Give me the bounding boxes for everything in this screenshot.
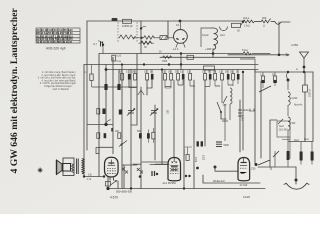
junction dot oscillator <box>140 37 142 39</box>
svg-text:4 650: 4 650 <box>291 43 298 47</box>
capacitor C21 beside V2 <box>152 171 155 176</box>
wire vertical x106 <box>105 65 107 125</box>
wire component bus y69.5 <box>106 69 258 71</box>
svg-text:+180 V: +180 V <box>205 47 214 51</box>
svg-text:2M: 2M <box>132 72 135 74</box>
svg-text:10 20 30 40 50 60 250V 80 4n 9: 10 20 30 40 50 60 250V 80 4n 95 <box>36 41 72 44</box>
wire vertical x162 <box>161 70 163 165</box>
fuse on top bus <box>112 18 118 21</box>
notes text block <box>38 71 77 91</box>
svg-text:1 kΩ: 1 kΩ <box>244 24 249 28</box>
netz box <box>277 121 290 137</box>
junction dots near V1 <box>103 175 105 177</box>
long resistor box x204-214 <box>204 66 215 70</box>
tube V3 rectifier envelope <box>238 158 250 181</box>
wire vertical x141 oscillator <box>140 21 142 54</box>
coil former marks x240 <box>238 110 242 116</box>
resistor R24 right of V2 <box>186 155 189 161</box>
power section corner <box>240 59 255 70</box>
wire vertical x137 <box>131 54 137 126</box>
svg-text:7000: 7000 <box>162 61 168 63</box>
capacitor C22 <box>147 133 150 138</box>
switch S4 diagonal <box>223 96 227 104</box>
capacitor C13 <box>209 74 212 80</box>
capacitor C10 <box>128 74 131 80</box>
star mark <box>38 168 43 173</box>
wire joints under resistors <box>129 79 152 88</box>
svg-text:a 4 b: a 4 b <box>173 48 179 51</box>
coil L3 bumps <box>210 28 218 54</box>
svg-text:4,7k: 4,7k <box>87 178 92 181</box>
wire left inner vertical <box>86 65 88 151</box>
junction dot speaker lead <box>83 175 85 177</box>
resistor R25 vertical right <box>303 85 308 92</box>
wire speaker bottom <box>84 158 105 177</box>
mains junction dot <box>255 163 258 166</box>
antenna symbol <box>300 52 309 58</box>
svg-text:Netz: Netz <box>294 139 300 142</box>
resistor R16 <box>189 74 192 81</box>
coil loops x230 <box>230 88 232 104</box>
variable capacitor C19 <box>127 109 135 116</box>
tuning indicator triangle <box>138 90 144 95</box>
choke core marks <box>216 142 222 146</box>
capacitor pair C27 <box>197 141 199 146</box>
output transformer core <box>77 159 79 175</box>
junction dot x213 y53.5 <box>212 52 215 55</box>
svg-text:110-240: 110-240 <box>279 128 288 131</box>
svg-text:230 V: 230 V <box>242 114 245 121</box>
resistor R18 <box>214 74 217 81</box>
resistor R10 <box>121 74 124 81</box>
capacitor C14 <box>227 74 230 80</box>
wire switch line y183 <box>203 175 260 183</box>
arrowhead <box>286 54 289 56</box>
trimmer arrow on x141 <box>140 27 142 29</box>
wire arrow line to antenna <box>228 54 289 56</box>
wire top bus <box>87 20 243 22</box>
capacitor C18 dark x120 y111 <box>119 110 122 115</box>
tube V1 envelope <box>105 157 119 177</box>
screen resistor R7 zigzag <box>243 52 251 55</box>
wire vertical x113 <box>112 57 114 154</box>
box on bus x190 <box>187 55 194 59</box>
tube V2 electrodes <box>170 158 178 174</box>
capacitor C26 <box>139 133 142 138</box>
wire vertical x181 <box>180 54 182 70</box>
grid cap marks <box>122 168 128 174</box>
trimmer capacitor on y124 <box>104 123 107 126</box>
wire vertical x205 <box>204 80 206 146</box>
wire vertical x296 ground lead <box>295 167 297 184</box>
connector bracket <box>249 109 255 112</box>
svg-text:150: 150 <box>167 109 170 114</box>
resistor R17 <box>204 74 207 81</box>
junction dot x215 <box>214 166 217 169</box>
loudspeaker cone <box>57 160 63 175</box>
wire grid line V1 <box>122 164 137 166</box>
svg-text:300: 300 <box>262 16 267 20</box>
resistor R6 zigzag on top bus <box>261 19 271 23</box>
main wire grid <box>84 21 313 189</box>
pilot lamp <box>174 30 188 44</box>
mains switch diagonals <box>258 160 270 165</box>
resistor R22 <box>274 76 277 83</box>
wire main bus y64.5 <box>84 64 258 66</box>
wire y124 tuning line <box>87 124 113 126</box>
junction dots bus y69.5 <box>287 71 289 73</box>
component row y133: resistor R27 <box>97 133 100 139</box>
u-joins under component row <box>165 85 233 87</box>
capacitor C16 dark on y87 <box>104 84 107 90</box>
svg-text:1M: 1M <box>230 72 233 74</box>
resistor R12 <box>146 74 149 81</box>
resistor R9 zigzag on y57 bus <box>163 56 172 59</box>
switch curve x288 <box>287 72 289 79</box>
tube V3 electrodes <box>240 158 247 173</box>
svg-text:500+500+300: 500+500+300 <box>116 190 133 194</box>
svg-text:Welle: Welle <box>243 109 250 112</box>
svg-text:0,003: 0,003 <box>292 98 298 100</box>
resistor R8 on left <box>90 74 93 81</box>
ground symbol anchor <box>286 183 307 189</box>
component row stubs <box>122 70 275 89</box>
capacitor C25 <box>104 133 107 138</box>
junction dots misc <box>105 68 108 71</box>
coil loops chain upper <box>288 92 290 105</box>
wire mains line y167 <box>258 166 296 168</box>
svg-text:0,1: 0,1 <box>176 23 180 27</box>
wire vertical x221 <box>221 112 226 119</box>
resistor R26 <box>152 132 155 139</box>
svg-text:Netz-An: Netz-An <box>294 104 303 107</box>
svg-text:4 GW 646 mit elektrodyn. Lauts: 4 GW 646 mit elektrodyn. Lautsprecher <box>9 8 20 174</box>
speaker voice coil zigzag <box>72 164 74 173</box>
svg-text:2300 Ω: 2300 Ω <box>309 89 312 97</box>
resistor box components x98-106 y109 <box>97 109 100 115</box>
wire vertical x300 <box>304 72 306 142</box>
switch S3 diagonal <box>119 141 127 147</box>
wire bottom bus left drop <box>107 177 109 189</box>
svg-text:1M: 1M <box>168 72 171 74</box>
wire vertical x305 antenna lead <box>303 58 305 72</box>
wire vertical x270 <box>270 120 277 167</box>
resistor R21 <box>262 76 265 83</box>
svg-text:5 kΩ: 5 kΩ <box>242 48 247 52</box>
wire vertical x194 <box>193 80 195 189</box>
antenna junction dot <box>303 66 306 69</box>
resistor R11 <box>134 74 137 81</box>
resistor R15 <box>177 74 180 81</box>
wire vertical x279 top <box>278 22 280 55</box>
svg-text:A: A <box>296 67 298 71</box>
wire bus y57 <box>160 56 255 58</box>
svg-text:Wellensch.: Wellensch. <box>213 179 226 183</box>
wire vertical x261 <box>260 81 262 158</box>
switch S1 feed wire <box>222 85 228 141</box>
parts table <box>36 28 80 43</box>
speaker field coil box <box>63 164 71 172</box>
svg-text:5000: 5000 <box>224 144 230 147</box>
resistor R19 <box>221 74 224 81</box>
tube V2 envelope <box>168 158 181 181</box>
wire vertical x141 lower <box>140 87 142 95</box>
variable capacitor C20 <box>150 109 158 116</box>
svg-text:0,1µ: 0,1µ <box>117 61 122 63</box>
svg-text:0,1µF: 0,1µF <box>202 33 209 37</box>
junction dot x279 on arrow line <box>278 54 281 57</box>
junction dot top bus x180 <box>179 20 182 23</box>
small tick x113 y129 <box>111 128 113 132</box>
wire heater lines <box>133 162 168 164</box>
wire vertical x168 top <box>167 21 169 37</box>
tiny value labels above component row <box>119 72 275 77</box>
svg-text:AL4: AL4 <box>220 33 225 37</box>
wire bus y87 <box>92 86 137 88</box>
coil loops chain lower <box>288 117 290 130</box>
coil L2 zigzag <box>144 36 155 39</box>
switch S2 diagonal <box>259 86 271 92</box>
wire screen bus y53.5 <box>99 53 243 55</box>
capacitor C15 <box>237 74 240 80</box>
voltage selector block <box>288 141 313 143</box>
wire vertical x213 <box>212 54 214 58</box>
output transformer winding <box>82 159 84 174</box>
svg-text:2000: 2000 <box>204 154 206 160</box>
link loop <box>220 27 228 31</box>
switch S1 diagonal <box>217 102 221 112</box>
wire vertical x174 <box>173 80 175 157</box>
svg-text:14/20: 14/20 <box>243 195 250 199</box>
capacitor dot C23 <box>261 80 264 83</box>
resistor R13 <box>164 74 167 81</box>
wire vertical x184 <box>183 80 185 189</box>
capacitor dot C24 <box>273 80 276 83</box>
resistor R20 <box>232 74 235 81</box>
wire vertical x131 <box>130 70 132 189</box>
resistor in bandfilter <box>123 19 132 23</box>
wire to rectifier <box>215 167 238 171</box>
wire vertical x122 <box>121 65 123 189</box>
speaker frame box <box>63 158 74 176</box>
wire verticals to bottom bus <box>118 88 155 189</box>
wire vertical x254 <box>254 70 256 164</box>
resistor box R4 <box>232 23 241 27</box>
svg-text:4V A20: 4V A20 <box>240 184 248 187</box>
svg-text:4 670: 4 670 <box>110 196 118 200</box>
heater junction dots <box>105 86 108 89</box>
component row: resistors and capacitors hanging from bus y69.5 <box>121 74 277 83</box>
wire left vertical <box>86 21 88 65</box>
svg-text:AL4 95/350: AL4 95/350 <box>163 181 177 185</box>
wire hop over <box>275 22 281 24</box>
svg-text:2M: 2M <box>213 72 216 74</box>
svg-text:b.20: b.20 <box>117 56 122 58</box>
wire bottom bus <box>108 188 265 190</box>
resistor R14 <box>170 74 173 81</box>
ground junction dot <box>295 179 298 182</box>
resistor R28 <box>118 133 121 139</box>
box on bus x113 <box>112 55 116 61</box>
coil L1 zigzag <box>119 35 136 39</box>
bandfilter dashed shield box <box>118 22 137 43</box>
svg-text:AVB 620 4µF: AVB 620 4µF <box>46 47 66 51</box>
capacitor C17 dark on y87 <box>117 84 120 90</box>
svg-text:230: 230 <box>251 167 256 171</box>
resistor R5 zigzag on top bus <box>243 20 255 23</box>
potentiometer arrow into V1 <box>106 182 111 187</box>
wire vertical x99 <box>99 54 113 177</box>
wire into output tube <box>150 164 169 166</box>
wire vertical x155 <box>154 105 156 131</box>
wire vertical x240 <box>239 100 241 152</box>
svg-text:2x500 pF: 2x500 pF <box>122 24 133 28</box>
svg-text:4000: 4000 <box>196 156 198 162</box>
capacitor C12 <box>182 74 185 80</box>
capacitor C11 <box>151 74 154 80</box>
oscillator coil box <box>201 28 210 47</box>
svg-text:2x0,1: 2x0,1 <box>243 16 250 20</box>
svg-text:4,7: 4,7 <box>93 42 97 46</box>
padder box <box>160 36 167 40</box>
resistor R3b zigzag <box>141 41 152 44</box>
svg-text:Ω: Ω <box>263 25 265 28</box>
svg-text:sind im Betrieb: sind im Betrieb <box>52 88 69 91</box>
resistor R23 small <box>96 148 99 154</box>
wire left lower vertical <box>83 65 85 159</box>
wire vertical x119 <box>118 70 120 88</box>
svg-text:150: 150 <box>223 104 228 107</box>
tube V1 electrodes <box>107 160 116 174</box>
